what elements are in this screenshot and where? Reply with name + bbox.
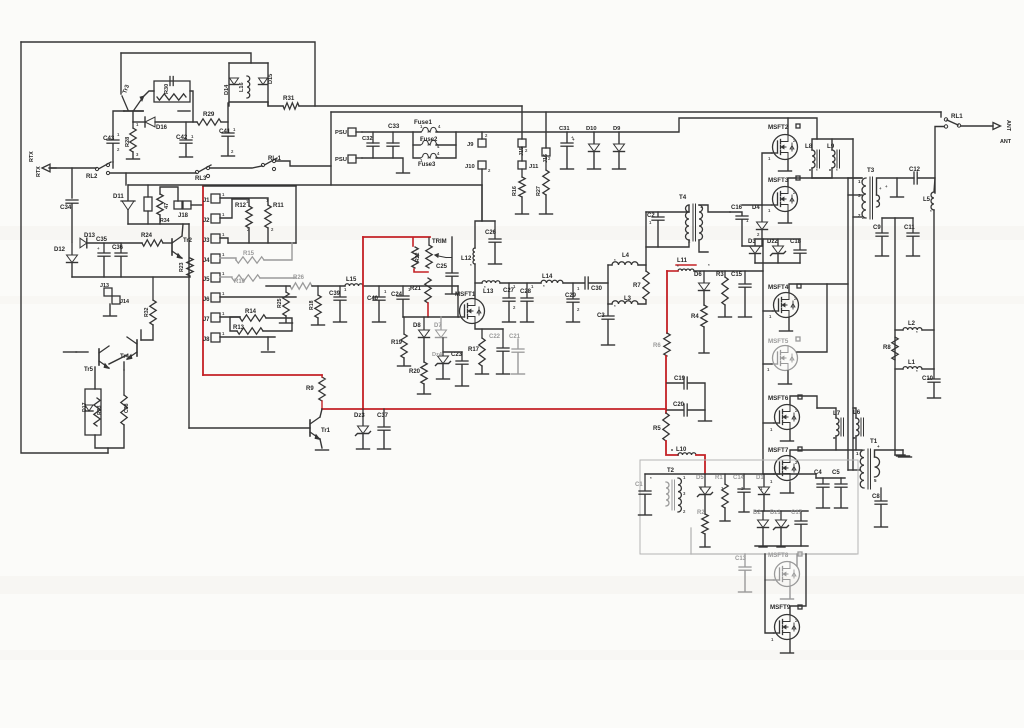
wire RL2 to RL3: [110, 172, 196, 174]
resistor R8: [892, 337, 898, 360]
wire Tr1 base: [189, 427, 310, 429]
ground 895: [899, 456, 912, 458]
svg-text:J9: J9: [467, 142, 474, 148]
svg-text:C28: C28: [520, 289, 532, 295]
wire rail286 a: [266, 285, 290, 287]
wire L2 right: [922, 329, 934, 331]
wire D15 to R31 row: [268, 102, 283, 106]
svg-text:MSFT6: MSFT6: [768, 395, 789, 402]
svg-text:Dz3: Dz3: [354, 413, 365, 419]
svg-text:L16: L16: [239, 82, 245, 92]
ground T1 sec: [897, 455, 910, 457]
diode D13: [80, 238, 87, 248]
wire L5 down: [933, 210, 935, 369]
wire D5 down: [704, 495, 706, 514]
wire C9 down: [881, 237, 883, 255]
svg-text:J6: J6: [203, 297, 210, 303]
wire msft5 source: [787, 371, 789, 383]
wire d9 stub: [618, 132, 620, 143]
svg-text:R9: R9: [306, 386, 314, 392]
capacitor C42: [185, 122, 187, 139]
ground msft9: [781, 652, 794, 654]
ground under R25: [280, 322, 293, 324]
svg-text:C1: C1: [635, 482, 643, 488]
svg-text:L1: L1: [908, 360, 916, 366]
wire L9 top: [831, 139, 833, 150]
wire L4 top link: [608, 264, 612, 266]
transistor Tr5: [98, 349, 100, 365]
connector J8: [211, 333, 220, 342]
wire J13 down: [109, 304, 111, 315]
svg-text:Tr1: Tr1: [321, 428, 331, 434]
capacitor C19: [683, 377, 685, 389]
ground under C3: [602, 344, 615, 346]
wire T4 bottom: [646, 240, 689, 247]
capacitor C27: [508, 283, 510, 297]
svg-text:Tr2: Tr2: [183, 238, 193, 244]
svg-text:Fuse2: Fuse2: [420, 137, 438, 143]
diode D2: [762, 511, 764, 519]
connector J6: [211, 293, 220, 302]
ground under R17: [476, 373, 489, 375]
wire 895 drop: [894, 218, 896, 455]
wire C43 down: [112, 144, 114, 162]
wire L2 row: [895, 329, 903, 331]
wire C25 down: [451, 277, 453, 293]
wire msft3 source: [787, 212, 789, 222]
ground under C41: [222, 155, 235, 157]
wire D1 down: [763, 495, 765, 511]
svg-text:R23: R23: [179, 262, 185, 272]
svg-text:47: 47: [164, 203, 170, 209]
wire psu2 rail: [362, 158, 403, 172]
wire R18 down: [317, 318, 319, 324]
svg-text:D6: D6: [694, 272, 702, 278]
capacitor C13: [744, 554, 746, 566]
svg-text:R18: R18: [309, 300, 315, 310]
wire L4L3 split: [607, 265, 609, 304]
resistor R10: [232, 275, 260, 281]
svg-text:C39: C39: [329, 291, 341, 297]
wire J net right: [295, 186, 297, 243]
transformer T1: [860, 450, 864, 488]
diode D17 box: [85, 389, 101, 435]
svg-text:D5: D5: [696, 475, 704, 481]
svg-text:R27: R27: [536, 186, 542, 196]
wire diode box: [229, 62, 268, 64]
ground under R20: [418, 393, 431, 395]
wire red trim drop: [362, 237, 364, 409]
wire Dz1 down: [780, 528, 782, 546]
svg-text:R30: R30: [164, 84, 170, 94]
wire msft7 source: [789, 482, 791, 492]
resistor R30: [157, 94, 186, 100]
svg-text:D11: D11: [113, 194, 124, 200]
svg-text:C40: C40: [367, 296, 379, 302]
wire fuse2 stub: [413, 144, 420, 146]
wire J1 link: [220, 198, 268, 205]
svg-text:D14: D14: [224, 84, 230, 95]
resistor R23: [187, 258, 193, 276]
svg-text:D17: D17: [82, 402, 88, 412]
wire L7 bottom: [835, 436, 837, 450]
wire C8 down: [880, 505, 882, 526]
wire T3 pin1: [848, 177, 862, 179]
svg-text:R1: R1: [715, 475, 723, 481]
connector J7: [211, 313, 220, 322]
svg-text:T4: T4: [679, 194, 687, 201]
wire J10 down: [481, 169, 483, 221]
wire R2 down: [704, 534, 706, 546]
wire R19 down: [403, 358, 405, 365]
diode D3: [754, 239, 756, 245]
ground under C39: [334, 321, 347, 323]
wire red r9 out: [321, 401, 323, 409]
capacitor above R30: [169, 77, 171, 86]
svg-text:RL3: RL3: [195, 176, 207, 182]
wire L1 row: [895, 368, 903, 370]
op-amp MSFT3: [773, 187, 798, 212]
wire T1 sec top: [875, 450, 904, 457]
ground C11: [907, 255, 920, 257]
resistor R14: [240, 315, 266, 321]
diode D16: [144, 117, 146, 127]
wire C24 down: [402, 300, 404, 317]
wire rail to gate: [457, 286, 459, 317]
ground under R3: [719, 316, 732, 318]
svg-text:R26: R26: [293, 275, 305, 281]
ground under R30 box: [178, 110, 190, 112]
inductor L14: [541, 280, 563, 283]
svg-text:C15: C15: [731, 272, 743, 278]
scan streak 4: [0, 650, 1024, 660]
capacitor C17: [800, 511, 802, 520]
wire Dz4 down: [442, 364, 444, 378]
wire relay riser: [112, 162, 114, 168]
wire R4 down: [703, 327, 705, 352]
wire T4 sec top: [699, 205, 730, 212]
ground under J13: [104, 315, 117, 317]
svg-text:MSFT7: MSFT7: [768, 447, 789, 454]
resistor R28: [132, 122, 134, 128]
svg-text:C8: C8: [872, 494, 880, 500]
inductor L12: [473, 248, 475, 264]
inductor L13: [482, 281, 500, 283]
capacitor C11: [912, 218, 914, 232]
wire C41 down: [227, 137, 229, 155]
wire c23 top: [443, 351, 462, 353]
diode Dz1: [780, 511, 782, 519]
resistor R9: [319, 377, 325, 401]
wire red row409: [322, 408, 666, 410]
op-amp MSFT1: [460, 299, 485, 324]
wire C22 down: [502, 352, 504, 373]
svg-text:C32: C32: [362, 136, 373, 142]
svg-text:D1: D1: [756, 475, 764, 481]
ground Dz3: [357, 448, 370, 450]
wire RL3 to RL1: [210, 166, 262, 168]
wire L11 out: [694, 270, 763, 272]
wire msft5 drain: [797, 284, 827, 352]
wire rail284: [563, 282, 584, 284]
capacitor C20: [683, 404, 685, 416]
wire relay out: [961, 125, 993, 127]
svg-text:Dz2: Dz2: [767, 239, 778, 245]
resistor R7: [643, 271, 649, 300]
wire msft2 drain: [787, 118, 789, 134]
svg-text:D15: D15: [268, 74, 274, 84]
diode Dz4: [442, 338, 444, 355]
resistor R31: [283, 103, 299, 109]
svg-text:L4: L4: [622, 253, 630, 259]
wire R30 right: [190, 91, 193, 122]
resistor R20: [421, 362, 427, 384]
wire red R6 down: [665, 356, 667, 413]
diode D14: [230, 78, 239, 85]
ground C5: [835, 507, 848, 509]
capacitor C41: [222, 132, 234, 134]
wire bus to relay: [940, 112, 942, 117]
wire fuse left rail: [413, 132, 420, 158]
diode D7: [440, 317, 442, 329]
wire bottom left edge: [690, 528, 692, 554]
pot wiper box: [174, 201, 182, 209]
wire red R22 stub: [412, 238, 414, 246]
svg-text:L9: L9: [827, 143, 835, 150]
wire msft2 source: [787, 160, 789, 170]
svg-text:C20: C20: [673, 402, 685, 408]
ground t3 sec: [891, 196, 904, 198]
resistor R25: [283, 292, 289, 316]
svg-text:ANT: ANT: [1005, 120, 1011, 132]
svg-text:R34: R34: [160, 218, 170, 224]
wire C18 down: [799, 254, 801, 263]
wire C41 node up: [227, 103, 229, 132]
svg-text:MSFT5: MSFT5: [768, 338, 789, 345]
connector J13: [104, 288, 112, 296]
wire C36 down: [120, 257, 122, 277]
svg-text:J14: J14: [120, 299, 129, 305]
wire red trim top: [363, 236, 430, 238]
wire msft1 drain: [474, 264, 476, 298]
diode D8: [423, 317, 425, 329]
resistor R6: [664, 333, 670, 356]
wire fuse2 right: [436, 144, 456, 146]
svg-text:C4: C4: [814, 470, 822, 476]
svg-text:J18: J18: [178, 213, 189, 219]
ground under C26: [489, 263, 502, 265]
svg-text:C23: C23: [451, 352, 463, 358]
svg-text:R4: R4: [691, 314, 699, 320]
wire L6 top: [853, 408, 856, 418]
ground under R4: [699, 352, 709, 354]
wire msft4 gate: [763, 310, 773, 312]
resistor R13: [237, 328, 263, 334]
wire Tr1 collector: [320, 409, 322, 417]
svg-text:C41: C41: [219, 128, 231, 135]
relay coil RL3 box: [144, 197, 152, 211]
svg-text:Tr5: Tr5: [84, 367, 94, 373]
diode Dz3: [362, 409, 364, 425]
capacitor C1: [644, 474, 646, 490]
svg-text:R28: R28: [125, 137, 131, 147]
connector J5: [211, 273, 220, 282]
inductor L4: [612, 262, 638, 265]
wire rail284 b: [589, 282, 608, 284]
wire RL2 drop: [125, 173, 127, 185]
ground under C21: [512, 373, 525, 375]
diode D10: [589, 144, 600, 152]
wire diode box bottom: [229, 101, 268, 103]
capacitor C21: [517, 339, 519, 348]
wire red R21 down: [427, 303, 429, 317]
capacitor C29: [572, 283, 574, 298]
wire msft6 source: [789, 430, 791, 440]
wire Dz2 down: [777, 254, 779, 263]
svg-text:C12: C12: [909, 167, 921, 173]
wire C2 down: [657, 221, 659, 247]
ground under J8: [262, 351, 275, 353]
wire psu1 rail: [362, 131, 421, 133]
wire R20 down: [423, 384, 425, 393]
wire msft6 gate: [763, 422, 774, 424]
svg-text:MSFT3: MSFT3: [768, 177, 789, 184]
wire J6 link: [220, 296, 296, 298]
svg-text:MSFT2: MSFT2: [768, 124, 789, 131]
ground under R19: [398, 365, 411, 367]
connector J2: [211, 214, 220, 223]
wire RTX line: [49, 167, 96, 169]
capacitor C30: [584, 277, 586, 289]
wire msft2 gate: [762, 153, 772, 205]
ground under R27: [540, 213, 553, 215]
svg-text:C13: C13: [735, 556, 747, 562]
svg-text:L3: L3: [624, 296, 632, 302]
ground msft2: [779, 170, 792, 172]
wire bus to J16: [545, 112, 547, 148]
ground under R16: [516, 213, 529, 215]
wire L3 link: [608, 303, 612, 305]
diode Dz2: [777, 239, 779, 245]
wire cluster bottom rail: [128, 223, 189, 225]
svg-text:C17: C17: [791, 510, 803, 516]
inductor L11: [678, 269, 694, 271]
wire red L11 in: [667, 270, 678, 272]
wire Tr1 emitter: [320, 439, 322, 448]
capacitor C24: [402, 286, 404, 295]
wire base row: [133, 121, 145, 123]
wire msft7 drain: [790, 450, 862, 456]
node RTX arrow: [42, 164, 50, 172]
svg-text:R16: R16: [512, 186, 518, 196]
svg-text:R3: R3: [716, 272, 724, 278]
wire R28 down: [132, 152, 134, 158]
wire dz1 box top: [755, 510, 808, 512]
svg-text:R19: R19: [391, 340, 403, 346]
svg-text:C21: C21: [509, 334, 521, 340]
connector J11: [518, 161, 526, 169]
ground C14: [739, 511, 749, 513]
capacitor C40: [378, 286, 380, 296]
svg-text:C35: C35: [96, 237, 108, 243]
wire C35 down: [103, 257, 105, 277]
wire T1 pin3: [848, 469, 860, 471]
transistor Tr3: [124, 110, 143, 112]
capacitor C43: [107, 139, 119, 141]
svg-text:Fuse1: Fuse1: [414, 119, 432, 126]
wire D9 down: [618, 152, 620, 168]
svg-text:R15: R15: [243, 251, 255, 257]
svg-text:MSFT4: MSFT4: [768, 284, 789, 291]
svg-text:C29: C29: [565, 293, 577, 299]
wire L4L3 join bottom: [638, 300, 646, 304]
wire R11 bottom: [267, 228, 269, 243]
resistor R26: [290, 283, 312, 289]
inductor L9: [832, 150, 835, 168]
wire J7 link: [220, 316, 240, 318]
wire Tr5 emitter: [94, 367, 96, 389]
wire msft9 source: [789, 640, 791, 652]
svg-text:D9: D9: [613, 126, 621, 132]
wire msft4 drain: [789, 284, 848, 292]
ground Dz1: [777, 546, 785, 548]
svg-text:L6: L6: [853, 409, 861, 416]
wire R32 to Tr4: [141, 325, 153, 340]
resistor R21: [425, 278, 431, 303]
wire c31 stub: [566, 132, 568, 142]
svg-text:R11: R11: [273, 203, 284, 209]
diode D9: [614, 144, 625, 152]
svg-text:R13: R13: [233, 325, 245, 331]
ground msft8: [781, 598, 794, 600]
capacitor C16: [736, 215, 748, 217]
wire C28 down: [526, 302, 528, 321]
svg-text:C9: C9: [873, 225, 881, 231]
svg-text:ANT: ANT: [1000, 139, 1012, 145]
svg-text:TRIM: TRIM: [432, 239, 447, 245]
diode D4: [761, 205, 763, 221]
transistor Tr2: [171, 239, 173, 255]
resistor R12: [246, 206, 252, 228]
wire C37 down: [383, 431, 385, 448]
svg-text:R5: R5: [653, 426, 661, 432]
wire C32 down: [372, 147, 374, 158]
wire R3 down: [724, 305, 726, 316]
svg-text:R17: R17: [468, 347, 480, 353]
svg-text:C31: C31: [559, 126, 570, 132]
wire R7 up: [645, 212, 647, 265]
wire relay drop: [934, 178, 935, 192]
wire rail286 c: [363, 285, 458, 287]
wire trim right: [451, 237, 453, 272]
relay RL2: [95, 167, 98, 170]
wire c9c11 feed: [882, 217, 913, 219]
inductor L16: [247, 76, 250, 98]
wire C13 down: [744, 571, 746, 591]
fuse Fuse2: [420, 140, 430, 145]
capacitor C22: [502, 329, 504, 347]
trimmer TRIM resistor: [426, 245, 432, 268]
ground C8: [875, 526, 888, 528]
capacitor C2: [657, 212, 659, 216]
ground C37: [378, 448, 391, 450]
wire T4 left top: [688, 205, 690, 212]
wire relay low contact: [935, 127, 944, 194]
transistor Tr1: [309, 420, 311, 436]
wire R25 down: [285, 316, 287, 322]
svg-text:D4: D4: [752, 205, 760, 211]
svg-text:C3: C3: [597, 313, 605, 319]
